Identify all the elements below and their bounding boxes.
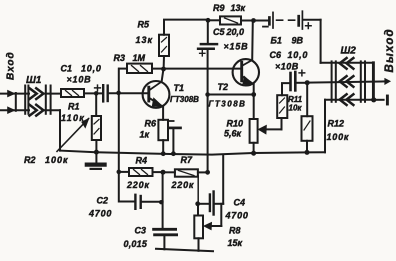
svg-text:220к: 220к: [126, 180, 150, 190]
svg-text:Б1: Б1: [271, 36, 282, 46]
svg-text:R4: R4: [136, 156, 148, 166]
svg-text:4700: 4700: [225, 211, 249, 221]
svg-text:10,0: 10,0: [288, 50, 309, 60]
svg-text:R5: R5: [138, 20, 150, 30]
svg-text:×10В: ×10В: [275, 62, 299, 72]
svg-text:220к: 220к: [171, 180, 195, 190]
svg-text:С4: С4: [234, 198, 246, 208]
svg-text:100к: 100к: [327, 132, 350, 142]
svg-text:R3: R3: [114, 53, 126, 63]
svg-text:Т2: Т2: [218, 82, 229, 92]
svg-text:10,0: 10,0: [81, 64, 102, 74]
svg-text:С5: С5: [213, 27, 225, 37]
svg-text:×10В: ×10В: [67, 75, 92, 85]
svg-text:R2: R2: [24, 155, 36, 165]
svg-text:С3: С3: [135, 226, 147, 236]
svg-text:С2: С2: [97, 196, 109, 206]
svg-text:9В: 9В: [292, 36, 304, 46]
svg-text:Ш2: Ш2: [341, 46, 357, 57]
svg-text:Вход: Вход: [6, 51, 17, 80]
svg-text:ГТ308В: ГТ308В: [170, 95, 199, 104]
svg-text:R7: R7: [181, 155, 193, 165]
svg-text:1М: 1М: [133, 53, 146, 63]
svg-text:С6: С6: [270, 50, 282, 60]
svg-text:R1: R1: [68, 102, 80, 112]
svg-text:R12: R12: [328, 119, 345, 129]
svg-text:С1: С1: [61, 64, 73, 74]
svg-text:R8: R8: [229, 226, 241, 236]
svg-text:0,015: 0,015: [124, 239, 148, 249]
svg-text:R10: R10: [227, 119, 244, 129]
svg-text:R6: R6: [145, 119, 157, 129]
svg-text:×15В: ×15В: [224, 42, 249, 52]
svg-text:13к: 13к: [136, 35, 154, 45]
svg-text:Т1: Т1: [174, 83, 185, 93]
svg-text:Выход: Выход: [384, 28, 396, 72]
svg-text:Ш1: Ш1: [26, 75, 42, 86]
svg-text:10к: 10к: [289, 104, 303, 113]
svg-text:110к: 110к: [61, 113, 85, 123]
svg-text:ГТ308В: ГТ308В: [209, 100, 247, 109]
svg-text:5,6к: 5,6к: [224, 129, 242, 139]
svg-text:100к: 100к: [45, 155, 69, 165]
svg-text:15к: 15к: [228, 238, 243, 248]
svg-text:13к: 13к: [231, 3, 246, 13]
svg-text:1к: 1к: [140, 130, 150, 140]
svg-text:4700: 4700: [88, 209, 112, 219]
svg-text:20,0: 20,0: [226, 27, 245, 37]
svg-text:R9: R9: [213, 3, 225, 13]
